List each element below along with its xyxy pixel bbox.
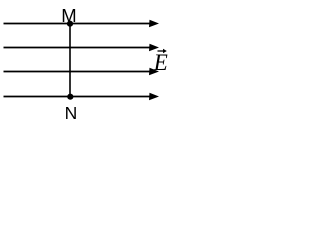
svg-text:N: N [65, 103, 78, 123]
svg-text:E: E [153, 50, 168, 75]
wire M-N (vertical segment) [69, 24, 71, 97]
label E (vector E) [153, 49, 168, 75]
node M (dot) [67, 21, 73, 27]
field line 3 [4, 68, 160, 76]
field line 1 (top) [4, 20, 160, 28]
field line 2 [4, 44, 160, 52]
field line 4 (bottom) [4, 93, 160, 101]
svg-text:M: M [61, 5, 76, 26]
node N (dot) [67, 94, 73, 100]
